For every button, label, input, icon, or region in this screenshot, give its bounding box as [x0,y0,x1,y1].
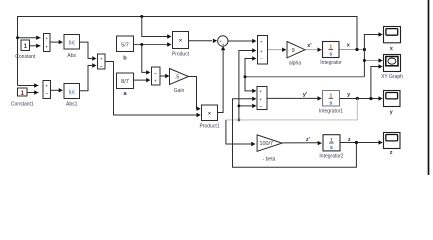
wire: b line drop to Sum3 in1 [142,45,148,73]
sum U2 (x-1) [43,81,51,99]
sum U4 (a-b) [152,67,161,85]
svg-text:Constant1: Constant1 [11,102,34,108]
scope y [384,91,401,116]
svg-text:−: − [259,104,262,110]
svg-text:x': x' [307,43,312,49]
node junction y riser [238,105,241,108]
integrator Integrator2 [319,135,343,160]
svg-text:Constant: Constant [15,54,36,60]
product Product (x*b) [172,32,190,58]
svg-text:−: − [45,91,48,97]
abs Abs1 [64,84,80,108]
scope XY Graph [381,55,403,81]
svg-text:−: − [260,57,263,63]
svg-text:+: + [259,90,262,95]
svg-text:+: + [45,37,48,42]
node junction on top line at x=141.3 [140,15,143,18]
wire: top x-feedback line [18,17,358,86]
svg-text:−: − [100,64,103,70]
svg-text:Integrator2: Integrator2 [319,154,343,160]
constant Constant1 [11,88,34,108]
wire: y riser to Sum4 in2 / Sum5 in3 [239,51,253,120]
node junction on b line [140,43,143,46]
svg-text:×: × [179,38,183,45]
integrator Integrator [320,42,342,67]
wire: Abs to Sum2 in1 [80,42,92,58]
sum U3 (|x+1|-|x-1|) [98,54,106,70]
sum U5 (x' equation) [258,36,268,65]
svg-text:z: z [390,150,393,156]
wire: Sum3 to Gain [160,75,166,77]
svg-text:- beta: - beta [263,156,276,162]
gain Gain (.5) [170,69,189,95]
svg-text:5/7: 5/7 [121,43,129,49]
wire: left vertical to Sum1b in1 [18,85,39,87]
svg-text:+: + [260,50,263,55]
wire: y output line [340,98,380,100]
svg-text:+: + [259,98,262,103]
svg-text:+: + [100,58,103,63]
svg-text:alpha: alpha [289,61,301,67]
node junction y line [356,97,359,100]
wire: beta to Integrator2 [282,142,319,144]
svg-text:+: + [45,45,48,50]
node junction XY in1 [363,59,366,62]
wire: z-feedback down-left-up to Sum5 in2 [233,99,357,168]
svg-text:+: + [154,79,157,84]
constant a (8/7) [117,73,134,97]
product Product1 [199,105,219,130]
constant b (5/7) [117,36,134,61]
svg-text:9: 9 [291,48,294,54]
svg-text:z': z' [306,137,311,143]
wire: y-feedback down-left to beta and y riser [226,99,357,120]
svg-text:1: 1 [24,43,28,50]
wire: x drop to XY Graph in1 and feedback [363,50,365,77]
integrator Integrator1 [319,91,343,115]
wire: Product to circle sum [189,40,213,42]
svg-text:Integrator1: Integrator1 [319,109,343,115]
window right border [428,0,430,175]
wire: Sum2 out down to Product1 in2 [105,62,198,116]
svg-text:8/7: 8/7 [121,79,129,85]
sum U6 (y' equation) [257,87,267,111]
scope z [384,133,401,156]
wire: circle sum to Sum4 in1 [228,40,252,42]
wire: Sum5 to Integrator1 [267,97,318,99]
gain alpha (9) [287,42,305,67]
wire: Product1 up to circle sum bottom [218,48,224,113]
wire: Abs1 to Sum2 in2 [80,66,92,91]
gain beta (100/7) [257,135,282,162]
svg-text:.5: .5 [175,75,180,81]
wire: constant b to Product in2 [134,44,169,46]
node junction z line [355,141,358,144]
svg-text:s: s [329,52,332,58]
wire: x output line [339,49,364,51]
node junction x-feedback [244,75,247,78]
wire: alpha to Integrator [305,49,318,51]
svg-text:−: − [154,71,157,77]
svg-text:XY Graph: XY Graph [381,74,403,80]
wire: Constant to Sum in2 [30,45,41,47]
svg-text:+: + [260,40,263,45]
wire: Sum to Abs [50,41,59,43]
svg-text:Gain: Gain [174,88,185,94]
svg-text:z: z [348,137,351,143]
wire: constant a to Sum3 in2 [134,79,148,81]
constant Constant [15,40,36,60]
scope x [384,27,401,52]
node junction left vertical [16,36,19,39]
wire: Gain to Product1 in1 [189,77,199,109]
svg-text:Abs1: Abs1 [66,102,78,108]
svg-text:100/7: 100/7 [260,141,274,147]
svg-text:s: s [330,145,333,151]
svg-text:|u|: |u| [69,40,75,46]
svg-text:+: + [45,85,48,90]
svg-text:Product1: Product1 [199,124,219,130]
node junction x line [355,48,358,51]
svg-text:Product: Product [172,52,190,58]
sum circle (f(x)) [218,36,228,47]
abs Abs [64,35,80,60]
wire: Constant1 to Sum1b in2 [27,92,38,94]
wire: left vertical branch to Sum in1 [18,37,41,39]
wire: x-feedback horizontal to sums [245,76,364,78]
wire: Sum4 to alpha gain [268,49,284,51]
wire: top line drop to Product in1 [142,17,168,37]
wire: y riser to XY Graph in2 [371,67,379,99]
svg-text:Abs: Abs [67,53,76,59]
svg-text:b: b [123,55,127,61]
wire: Sum1b to Abs1 [51,89,60,91]
svg-text:s: s [329,100,332,106]
svg-text:×: × [208,111,212,118]
svg-text:y': y' [303,92,308,98]
svg-text:Integrator: Integrator [320,60,342,66]
wire: z output line [340,142,379,144]
sum U1 (x+1) [44,34,51,52]
wire: x riser to Scope x [364,35,379,50]
svg-text:|u|: |u| [69,90,75,96]
arrowheads [34,32,383,146]
